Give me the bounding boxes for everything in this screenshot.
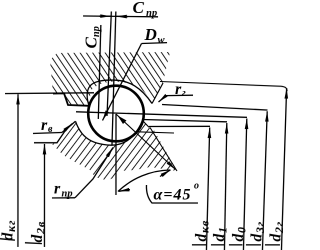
inner ring left surface [34, 121, 76, 143]
svg-text:r: r [54, 180, 61, 197]
dkg label underline [0, 239, 15, 240]
Cpr left arrow [99, 15, 111, 17]
svg-text:C: C [133, 0, 145, 17]
d1 label underline [211, 244, 224, 246]
Cpr right arrow [116, 15, 128, 17]
rv underline [33, 132, 62, 133]
d0 dimension line [243, 119, 246, 250]
dkv label underline [192, 244, 206, 246]
inner ring groove arc [75, 120, 142, 145]
d2v dimension line [43, 144, 45, 247]
Cpr top dimension line [83, 15, 158, 18]
svg-text:D: D [144, 25, 157, 44]
inner ring shoulder surface [137, 132, 174, 133]
d3g dimension line [262, 111, 267, 250]
alpha arc [118, 170, 170, 192]
rg leader arrow [159, 96, 167, 102]
d1 extension line [143, 119, 228, 121]
Cpr rotated reference line [98, 25, 101, 119]
d1 dimension line [224, 123, 226, 250]
rpr leader [75, 147, 113, 197]
dkv extension line [149, 125, 210, 127]
svg-text:г: г [182, 88, 186, 99]
Dw underline [142, 42, 168, 45]
outer ring right chamfer [152, 83, 163, 104]
dkg dimension line [17, 94, 19, 247]
svg-text:о: о [194, 181, 199, 192]
alpha arc right arrow [160, 170, 171, 177]
Dw leader [103, 43, 142, 120]
rpr underline [52, 197, 75, 199]
alpha label underline [146, 185, 198, 203]
alpha 45 contact line [116, 114, 176, 170]
outer ring left shoulder line [53, 93, 89, 106]
d2v label underline [25, 242, 42, 245]
outer ring bore line [160, 82, 287, 92]
contact angle arrow near ball center [118, 115, 127, 124]
svg-text:α=45: α=45 [153, 187, 191, 204]
svg-text:w: w [158, 35, 166, 46]
dkg extension line [5, 92, 94, 95]
ball centerline [76, 112, 247, 118]
alpha vertical reference line [115, 114, 117, 195]
inner groove axis line [112, 11, 116, 144]
inner ring right chamfer [142, 120, 149, 127]
alpha arc left arrow [119, 189, 130, 191]
svg-text:пр: пр [146, 8, 157, 19]
dkv dimension line [206, 128, 209, 250]
d3g extension line [162, 105, 268, 111]
inner ring 45-degree cut edge [150, 128, 177, 172]
inner ring hatched section [52, 120, 177, 180]
ball [88, 86, 144, 142]
d3g label underline [246, 244, 261, 246]
d2g dimension line [281, 88, 286, 250]
outer ring hatched section [50, 52, 170, 107]
outer ring groove arc [87, 80, 152, 106]
rv leader arrow [62, 123, 73, 132]
svg-text:r: r [41, 117, 48, 134]
d0 label underline [229, 244, 243, 246]
rg underline [166, 94, 193, 96]
outer groove axis line [107, 11, 111, 116]
d2g label underline [265, 244, 280, 246]
